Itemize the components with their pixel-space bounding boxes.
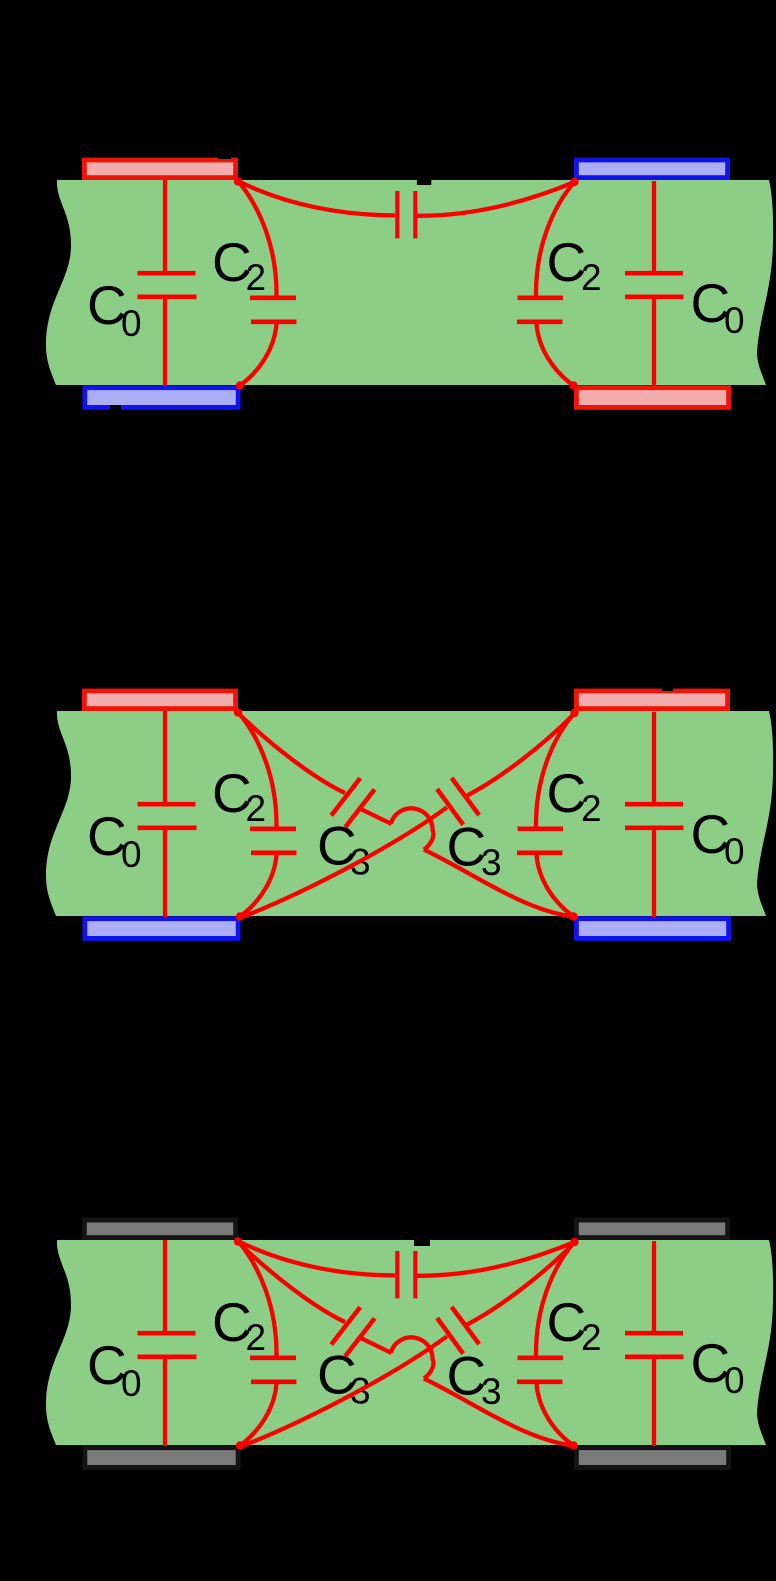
node: bottom-left electrode corner [236, 381, 244, 389]
electrode bottom-right [576, 919, 728, 939]
svg-text:2: 2 [246, 1317, 267, 1358]
node: top-right electrode corner [570, 1238, 578, 1246]
node: bottom-right electrode corner [569, 912, 577, 920]
leader mark of hidden black label (bottom-left electrode) [110, 405, 121, 411]
leader mark of hidden black label (top-left electrode) [218, 148, 231, 159]
leader mark of hidden black label (top-right electrode) [662, 685, 673, 691]
electrode bottom-left [85, 388, 238, 408]
svg-text:3: 3 [481, 842, 502, 883]
capacitor C3 (left, on diagonal wire A) [239, 1243, 574, 1446]
svg-text:0: 0 [121, 834, 142, 875]
svg-text:0: 0 [724, 831, 745, 872]
capacitor C0 (right) [625, 181, 684, 386]
svg-text:2: 2 [246, 788, 267, 829]
capacitor C1 (direct coupling, top middle) [238, 181, 575, 238]
svg-text:2: 2 [581, 257, 602, 298]
electrode bottom-right [576, 388, 728, 408]
electrode top-left [84, 1220, 235, 1238]
electrode top-left [84, 691, 235, 709]
capacitor C2 (left) [238, 1241, 297, 1446]
electrode bottom-left [85, 1448, 238, 1468]
capacitor C2 (right) [517, 182, 575, 386]
substrate (piezoelectric slab) [46, 711, 773, 916]
node: top-right electrode corner [570, 709, 578, 717]
electrode top-right [576, 160, 727, 178]
node: bottom-left electrode corner [236, 1441, 244, 1449]
capacitor C2 (right) [517, 1242, 575, 1446]
capacitor C0 (left) [138, 1240, 197, 1446]
substrate (piezoelectric slab) [46, 1240, 773, 1445]
svg-text:0: 0 [724, 300, 745, 341]
node: top-right electrode corner [570, 178, 578, 186]
svg-text:2: 2 [581, 788, 602, 829]
wire hop (crossover) [391, 808, 434, 849]
capacitor C0 (right) [625, 1241, 684, 1446]
node: bottom-left electrode corner [236, 912, 244, 920]
capacitor C3 (left, on diagonal wire A) [239, 714, 574, 917]
electrode bottom-right [576, 1448, 728, 1468]
capacitor C3 (right, on diagonal wire B) [241, 714, 575, 918]
wire hop (crossover) [391, 1337, 434, 1378]
capacitor C0 (left) [138, 711, 197, 917]
electrode top-left [84, 160, 235, 178]
descender of hidden black label C1 (top middle) [414, 1225, 430, 1246]
capacitor C2 (right) [517, 713, 575, 917]
electrode bottom-left [85, 919, 238, 939]
svg-text:2: 2 [246, 257, 267, 298]
node: top-left electrode corner [234, 708, 242, 716]
capacitor C1 (direct coupling, top middle) [238, 1241, 575, 1298]
svg-text:0: 0 [121, 1363, 142, 1404]
node: top-left electrode corner [234, 177, 242, 185]
electrode top-right [576, 1220, 727, 1238]
svg-text:2: 2 [581, 1317, 602, 1358]
electrode top-right [576, 691, 727, 709]
capacitor C3 (right, on diagonal wire B) [241, 1243, 575, 1447]
capacitor C2 (left) [238, 712, 297, 917]
svg-text:0: 0 [121, 303, 142, 344]
svg-text:3: 3 [481, 1371, 502, 1412]
capacitor C0 (left) [138, 180, 197, 386]
descender of hidden black label C1 (top middle) [417, 165, 431, 185]
node: top-left electrode corner [234, 1237, 242, 1245]
svg-text:0: 0 [724, 1360, 745, 1401]
capacitor C0 (right) [625, 712, 684, 917]
capacitor C2 (left) [238, 181, 297, 386]
node: bottom-right electrode corner [569, 381, 577, 389]
substrate (piezoelectric slab) [46, 180, 773, 385]
node: bottom-right electrode corner [569, 1441, 577, 1449]
